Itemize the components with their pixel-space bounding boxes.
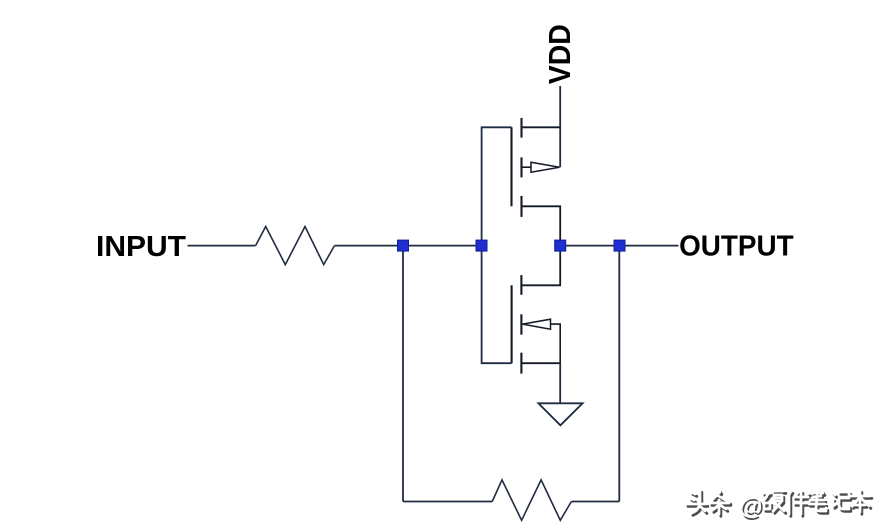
- resistor R2: [492, 480, 571, 520]
- wire feedback bottom left: [403, 501, 492, 503]
- nmos M2 gate bar: [511, 285, 513, 363]
- pmos M1 source stub: [522, 206, 561, 245]
- junction gate node: [476, 240, 487, 251]
- resistor R1: [256, 227, 335, 265]
- wire VDD lead: [559, 86, 561, 167]
- nmos M2 drain stub: [521, 246, 560, 286]
- svg-text:INPUT: INPUT: [96, 231, 186, 263]
- wire input node to gate node: [403, 245, 482, 247]
- wire source to ground: [559, 363, 561, 403]
- junction drain node: [555, 240, 566, 251]
- pmos M1 gate lead top: [482, 127, 512, 245]
- junction output node: [614, 240, 625, 251]
- wire feedback left vertical: [402, 246, 404, 502]
- svg-text:VDD: VDD: [542, 24, 577, 84]
- wire resistor to input node: [335, 245, 404, 247]
- wire feedback bottom right: [571, 501, 619, 503]
- pmos M1 channel bottom bar: [520, 196, 522, 217]
- wire drain node to output node: [560, 245, 619, 247]
- pmos M1 channel middle bar: [520, 157, 522, 177]
- pmos M1 drain stub: [522, 126, 561, 128]
- nmos M2 channel bottom bar: [520, 353, 522, 374]
- ground: [538, 403, 582, 425]
- pmos M1 channel top bar: [520, 118, 522, 138]
- nmos M2 source stub: [521, 362, 560, 364]
- nmos M2 bulk arrow: [523, 319, 551, 329]
- pmos M1 bulk arrow: [531, 162, 560, 172]
- wire feedback right vertical: [618, 246, 620, 502]
- junction input node: [398, 240, 409, 251]
- wire input lead: [188, 245, 256, 247]
- nmos M2 channel top bar: [520, 275, 522, 295]
- nmos M2 bulk stub: [551, 324, 561, 363]
- nmos M2 gate lead bottom: [482, 246, 512, 364]
- watermark shadow layer: [688, 492, 872, 522]
- svg-text:OUTPUT: OUTPUT: [679, 231, 794, 263]
- watermark front layer: [686, 490, 870, 520]
- nmos M2 channel middle bar: [520, 314, 522, 334]
- pmos M1 bulk stub: [522, 166, 532, 168]
- pmos M1 gate bar: [510, 127, 512, 206]
- wire output lead: [620, 245, 679, 247]
